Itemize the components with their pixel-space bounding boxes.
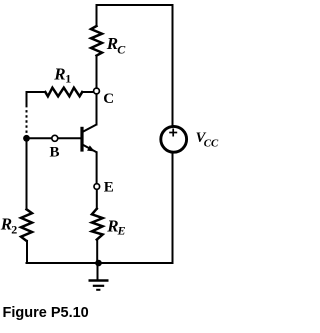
svg-text:B: B [50,145,60,161]
ground bar top [89,279,109,281]
transistor emitter arrowhead [87,145,95,151]
label R2 [0,215,17,237]
transistor emitter diagonal [83,145,97,153]
svg-text:2: 2 [11,223,17,237]
wire bottom rail [27,262,173,264]
wire RE to ground junction [96,240,98,263]
ground bar bottom [96,289,100,291]
resistor R2 [21,209,32,241]
resistor RC [91,26,102,56]
wire R1 left lead [27,91,46,93]
wire base lead right of B node to transistor [58,137,81,139]
wire left rail dashed segment [26,105,28,135]
svg-text:Figure P5.10: Figure P5.10 [3,305,89,321]
svg-text:R: R [106,34,118,53]
wire Rc to node C [96,56,98,88]
wire base lead left of B node [27,137,52,139]
ground [89,263,109,290]
node C terminal circle [94,88,100,94]
wire node C to collector [96,94,98,124]
junction dot bottom rail [95,260,102,267]
wire left rail solid upper [26,92,28,105]
wire left rail dot to R2 [26,136,28,209]
svg-text:R: R [53,64,65,83]
label RE [106,216,125,237]
junction dot left rail [23,135,30,142]
wire R1 right lead to node C [82,91,93,93]
resistor RE [92,209,103,240]
resistor R1 [45,88,82,97]
transistor Q1 [82,125,97,153]
svg-text:CC: CC [204,137,219,149]
transistor collector diagonal [83,125,97,132]
wire right rail lower (Vcc source to bottom rail) [172,152,174,263]
wire top rail [97,4,173,6]
svg-text:E: E [117,223,126,237]
VCC plus sign [169,129,177,137]
source VCC [161,126,187,152]
wire R2 to bottom rail [26,241,28,263]
label R1 [53,64,71,85]
label RC [106,34,127,56]
ground bar middle [93,285,104,287]
svg-text:C: C [117,42,126,56]
wire right rail upper (top rail to Vcc source) [172,5,174,126]
node E terminal circle [94,184,100,190]
ground stub wire [97,263,99,280]
svg-text:C: C [103,91,114,107]
label VCC [196,130,219,150]
wire emitter vertical to node E [96,152,98,183]
svg-text:E: E [104,180,114,196]
wire top rail to Rc [96,5,98,26]
transistor base bar [80,127,83,152]
wire node E to RE [96,190,98,209]
svg-text:1: 1 [65,71,71,85]
node B terminal circle [52,135,58,141]
